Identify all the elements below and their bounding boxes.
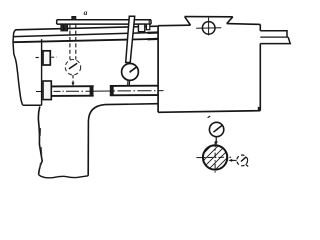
pulley circle [202,22,215,35]
machine leg right edge [87,121,89,176]
torn edge roughness marks [40,128,42,168]
base fillet curve [88,105,105,121]
left test bar dark end cap [90,86,94,96]
right test bar body [110,86,158,96]
corner blob bottom right [258,107,261,110]
chuck flange block on mandrel [43,81,51,100]
bed way end thick marks at headstock [148,33,158,40]
bed front panel right edge [41,39,43,105]
dashed side gauge circle [237,155,248,166]
dial stem [128,80,130,86]
indicator rod (solid) [126,16,135,62]
dashed indicator rod (phantom) [70,24,76,59]
side gauge tail tick [246,164,249,166]
cross-section centreline vertical [214,142,216,175]
right end clamp foot [146,24,149,30]
upper clamp block [43,51,50,65]
lathe bed way line 3 [13,39,158,42]
dial indicator circle [122,64,139,81]
side gauge arrow into circle [231,159,237,161]
bed front panel bottom edge [23,104,42,106]
shaft cross-section circle (hatched) [203,145,227,169]
side gauge arrowhead [228,159,232,162]
left test bar body [52,86,94,96]
mandrel centre dash-dot line [36,90,164,93]
side gauge needle [241,157,246,162]
headstock top edge right section [227,23,261,26]
headstock bottom edge [158,111,260,113]
detail: small dial gauge top [209,122,223,136]
headstock top edge left section [158,24,190,27]
pulley crosshair horizontal [196,27,221,30]
dial needle [130,67,137,72]
spindle shaft lower outline [260,37,290,44]
upper block centre dash line right [51,56,56,58]
pulley housing top line [185,16,233,18]
pulley crosshair vertical [208,18,210,36]
lathe bed way line 2 [14,32,158,36]
small dial centre dot [216,129,218,131]
phantom gauge needle [69,63,77,69]
bed base line to headstock [105,103,158,106]
small dial stem arrowhead [215,141,218,145]
machine leg torn left edge [38,107,42,175]
left clamp foot [61,24,64,31]
phantom gauge stem dashed [72,75,74,83]
mid clamp foot [138,24,144,32]
straightedge bar body [57,20,151,24]
bed front panel (torn left edge) [13,42,23,105]
tick mark above detail [208,116,211,117]
pulley housing Z-jog right [227,17,233,24]
headstock right edge upper [259,24,261,30]
dial centre dot [129,71,131,73]
hatching [195,140,239,183]
cross-section centreline horizontal [196,156,231,158]
machine leg bottom torn edge [39,175,89,178]
dashed dial gauge circle (phantom) [65,59,80,74]
svg-text:a: a [84,8,88,17]
bar right end cap line [148,20,150,24]
bed left rounded corner [13,30,16,43]
clamp knob over dashed rod [72,17,76,20]
small dial needle [213,126,222,133]
left clamp foot right half [65,24,68,31]
spindle shaft upper rectangle [260,31,287,37]
lathe bed top way line 1 [16,26,158,30]
upper block centre dash line left [36,57,39,59]
headstock left edge [157,26,159,113]
right test bar dark end cap [110,86,114,96]
pulley housing Z-jog left [185,17,191,26]
small dial stem [215,137,217,142]
headstock right edge lower [259,44,261,111]
spindle shaft mid line [260,36,288,38]
phantom stem arrowhead [72,82,75,86]
